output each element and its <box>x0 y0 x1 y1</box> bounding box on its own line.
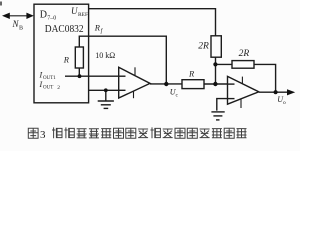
svg-text:2R: 2R <box>198 42 209 52</box>
svg-text:o: o <box>283 100 286 106</box>
svg-text:U: U <box>71 6 78 16</box>
svg-text:R: R <box>63 55 70 65</box>
svg-text:DAC0832: DAC0832 <box>45 24 84 35</box>
svg-text:D: D <box>40 9 47 20</box>
svg-text:B: B <box>19 26 23 32</box>
svg-text:OUT: OUT <box>43 85 53 90</box>
svg-text:I: I <box>39 80 43 89</box>
svg-text:R: R <box>188 68 195 78</box>
svg-text:2: 2 <box>57 85 60 91</box>
svg-text:I: I <box>39 70 43 79</box>
svg-text:c: c <box>176 93 179 99</box>
svg-text:f: f <box>101 27 104 34</box>
svg-text:10 kΩ: 10 kΩ <box>95 51 115 60</box>
svg-text:3: 3 <box>40 129 46 141</box>
svg-text:2R: 2R <box>239 49 250 59</box>
svg-text:OUT1: OUT1 <box>43 76 56 81</box>
svg-text:7–0: 7–0 <box>47 15 56 21</box>
svg-text:REF: REF <box>78 12 88 18</box>
